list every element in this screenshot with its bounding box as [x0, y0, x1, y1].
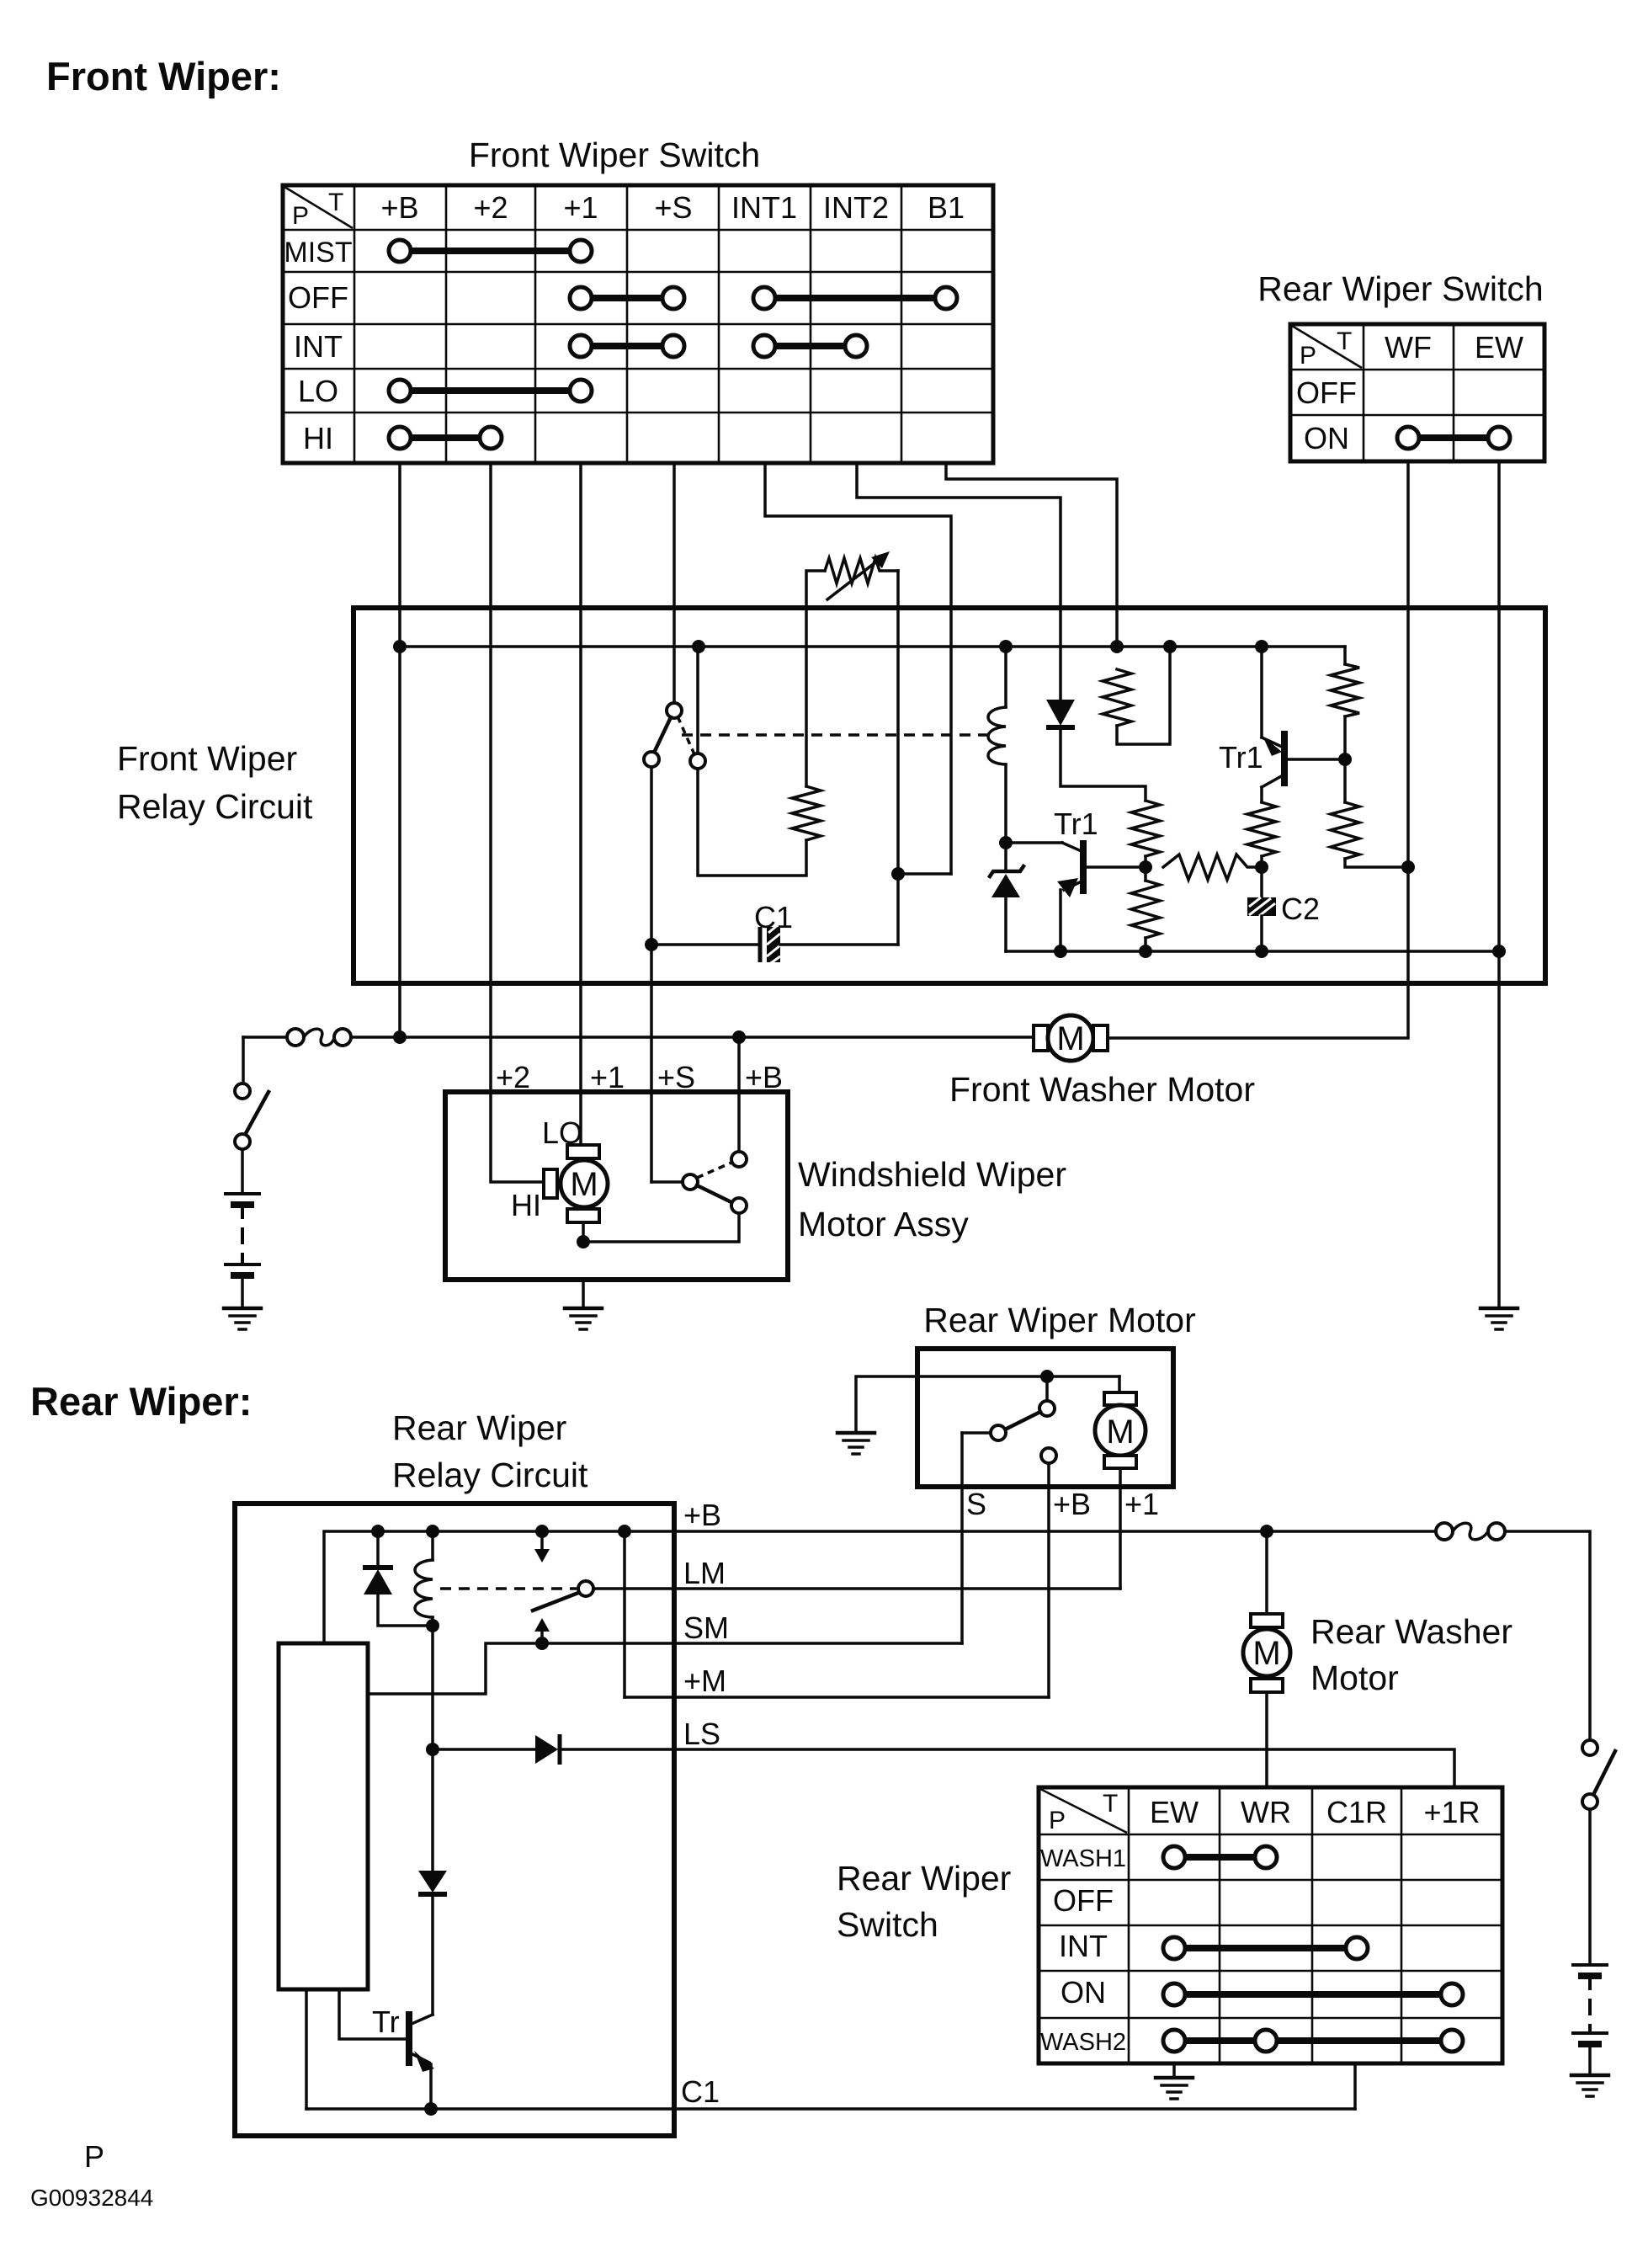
transistor Tr1 (lower): [1006, 840, 1146, 951]
svg-text:SM: SM: [683, 1610, 729, 1645]
node rear bus washer motor: [1260, 1525, 1273, 1538]
node bus right contact: [692, 640, 705, 653]
svg-text:Front Wiper:: Front Wiper:: [46, 54, 281, 98]
svg-text:INT: INT: [294, 329, 343, 364]
svg-text:Rear Washer: Rear Washer: [1310, 1612, 1512, 1651]
wire R5 to node: [1260, 856, 1263, 867]
resistor R2 (B1 branch): [1103, 649, 1170, 744]
resistor R5: [1247, 802, 1276, 856]
ON contact WF to EW: [1397, 427, 1510, 449]
dashed relay actuation line: [682, 733, 996, 737]
svg-text:T: T: [1337, 327, 1352, 355]
svg-text:Rear Wiper:: Rear Wiper:: [30, 1379, 252, 1424]
feed line to washer motor: [351, 1036, 1034, 1039]
park contact upper: [731, 1152, 747, 1167]
svg-text:C2: C2: [1281, 892, 1320, 926]
windshield wiper motor assy box: [445, 1092, 788, 1280]
node bus R2 return: [1163, 640, 1177, 653]
svg-text:HI: HI: [511, 1188, 541, 1222]
IC block: [279, 1643, 368, 1989]
ground rear motor: [837, 1433, 875, 1454]
diode D2 (rear series): [418, 1871, 447, 2015]
node rear bus +M: [618, 1525, 631, 1538]
front table position labels: [284, 237, 352, 455]
rear +B fuse F2: [1436, 1523, 1505, 1540]
rear +B bus: [324, 1531, 1444, 1643]
bottom rail wire inside relay box: [1006, 950, 1499, 953]
svg-text:M: M: [570, 1166, 598, 1203]
svg-text:OFF: OFF: [288, 280, 348, 315]
node bus coil: [999, 640, 1013, 653]
svg-text:C1: C1: [681, 2074, 720, 2109]
svg-text:INT: INT: [1059, 1929, 1108, 1963]
wire +2 column down to motor assy: [491, 463, 544, 1182]
resistor R4: [1131, 881, 1160, 938]
rear wiper motor box: [917, 1349, 1173, 1487]
rear relay pivot contact: [578, 1581, 593, 1596]
node VR1/INT1: [891, 867, 905, 881]
front wiper relay circuit box: [354, 608, 1545, 983]
SW1 dashed arm: [678, 716, 694, 754]
MIST contact +B to +1: [389, 240, 592, 262]
fuse F1: [287, 1029, 351, 1046]
node SM junction: [535, 1637, 549, 1650]
wire +S column down to relay switch pivot: [672, 463, 676, 704]
SW1 left contact: [644, 752, 659, 767]
node rear bus D1: [371, 1525, 385, 1538]
variable resistor VR1: [806, 551, 898, 786]
SM line: [548, 1642, 962, 1645]
diode D3 (LS): [433, 1734, 560, 1765]
wire EW from rear switch down to ground: [1497, 461, 1501, 1307]
rear wiper switch table (bottom) grid: [1039, 1787, 1502, 2063]
SW1 arm: [654, 717, 671, 753]
front table header pin labels: [292, 189, 965, 230]
ignition switch: [235, 1083, 268, 1149]
svg-text:B1: B1: [928, 190, 965, 225]
node base upper Tr1: [1338, 753, 1352, 766]
wire C1R to C1 rail: [1353, 2063, 1357, 2109]
node R3/R4 base: [1139, 860, 1152, 874]
wire +B column down: [398, 463, 401, 1037]
front washer motor: [1034, 1015, 1108, 1061]
svg-text:ON: ON: [1304, 421, 1349, 455]
wire R4 bottom: [1144, 938, 1147, 951]
wire node to INT1 leg: [898, 872, 951, 876]
svg-text:Front Wiper Switch: Front Wiper Switch: [469, 136, 760, 174]
node WF junction: [1401, 860, 1415, 874]
capacitor C1: [651, 924, 898, 965]
LO contact +B to +1: [389, 380, 592, 402]
svg-text:LO: LO: [542, 1115, 582, 1150]
wire switch to battery: [241, 1149, 244, 1192]
C1 rail: [306, 2107, 1355, 2111]
rear relay coil L2: [415, 1531, 433, 1617]
node Tr emitter on C1: [424, 2102, 438, 2116]
ON contact EW to +1R: [1163, 1983, 1463, 2005]
ground rear switch EW: [1156, 2063, 1193, 2099]
wire right contact to bus: [696, 649, 699, 753]
svg-text:EW: EW: [1475, 330, 1523, 365]
wire R3 to node: [1144, 856, 1147, 881]
node bus +B: [393, 640, 407, 653]
wire SM jog to IC: [368, 1643, 542, 1694]
transistor Tr (rear): [339, 1989, 434, 2109]
svg-text:P: P: [1300, 342, 1316, 370]
park switch arm dashed: [697, 1163, 731, 1178]
rear bottom table labels: [1040, 1790, 1481, 2056]
svg-text:P: P: [292, 202, 309, 230]
svg-text:+B: +B: [683, 1498, 721, 1532]
svg-text:P: P: [1049, 1807, 1066, 1834]
node bus Tr1 emitter: [1255, 640, 1268, 653]
wire R1 bottom to contact: [698, 769, 806, 876]
node C2 bottom: [1255, 945, 1268, 958]
svg-text:C1: C1: [754, 900, 793, 934]
park switch arm solid: [697, 1185, 733, 1203]
LM line: [593, 1587, 1120, 1590]
wire bus corner to right chain: [1343, 647, 1347, 664]
svg-text:Windshield Wiper: Windshield Wiper: [798, 1155, 1066, 1194]
OFF contact INT1 to B1: [753, 287, 957, 309]
svg-text:P: P: [84, 2139, 104, 2174]
svg-text:Relay Circuit: Relay Circuit: [117, 787, 313, 826]
resistor R8: [1331, 802, 1359, 859]
svg-text:+1: +1: [563, 190, 598, 225]
wire B1 jog to bus: [946, 463, 1117, 647]
wire ignition drop: [242, 1037, 245, 1083]
svg-text:C1R: C1R: [1326, 1795, 1387, 1829]
svg-text:INT2: INT2: [823, 190, 889, 225]
svg-text:Motor Assy: Motor Assy: [798, 1205, 969, 1243]
relay coil L1: [988, 647, 1006, 843]
node rear bus coil: [426, 1525, 439, 1538]
resistor R3: [1131, 801, 1160, 856]
wire R7 to base node: [1343, 716, 1347, 802]
wire ground feed into motor box: [856, 1376, 1119, 1431]
svg-text:WR: WR: [1241, 1795, 1291, 1829]
svg-text:MIST: MIST: [284, 237, 352, 269]
node motor common: [577, 1235, 590, 1248]
wire IC left pin to C1 rail: [305, 1989, 308, 2109]
svg-text:WASH2: WASH2: [1040, 2029, 1126, 2056]
svg-text:INT1: INT1: [731, 190, 797, 225]
OFF contact +1 to +S: [570, 287, 684, 309]
svg-text:+B: +B: [380, 190, 418, 225]
ground right battery: [1571, 2075, 1608, 2096]
node rear motor switch feed: [1040, 1370, 1054, 1383]
node rear bus contact: [535, 1525, 549, 1538]
wire INT1 jog: [765, 463, 951, 874]
capacitor C2: [1247, 867, 1276, 951]
svg-text:Tr1: Tr1: [1219, 740, 1263, 775]
svg-text:WASH1: WASH1: [1040, 1845, 1126, 1872]
wire fuse to right battery: [1505, 1531, 1590, 1740]
svg-text:M: M: [1106, 1414, 1134, 1451]
svg-text:Switch: Switch: [837, 1905, 938, 1944]
svg-text:Tr1: Tr1: [1054, 807, 1098, 841]
dashed rear relay actuation: [440, 1587, 577, 1590]
INT contact INT1 to INT2: [753, 335, 867, 357]
wire VR1 right leg: [896, 571, 900, 874]
svg-text:Rear Wiper: Rear Wiper: [392, 1408, 566, 1447]
resistor R7: [1331, 664, 1359, 716]
zener diode ZD1: [990, 843, 1023, 951]
relay switch SW1 pivot: [667, 703, 682, 718]
svg-text:+1: +1: [590, 1060, 625, 1094]
wire R8 to WF node: [1345, 859, 1408, 867]
ground wiper motor: [565, 1280, 602, 1329]
svg-text:T: T: [1103, 1790, 1118, 1818]
wiper motor M1: [544, 1145, 608, 1222]
INT contact EW to C1R: [1163, 1937, 1368, 1959]
svg-text:+1R: +1R: [1423, 1795, 1480, 1829]
node EW rail: [1492, 945, 1506, 958]
svg-text:EW: EW: [1150, 1795, 1199, 1829]
svg-text:+S: +S: [654, 190, 692, 225]
rear motor M2: [1095, 1376, 1146, 1468]
svg-text:LO: LO: [298, 374, 338, 408]
wire +1 column down to motor assy: [579, 463, 582, 1145]
wire +1 terminal down: [1119, 1468, 1122, 1589]
node R5/R6/C2: [1255, 860, 1268, 874]
node R4 bottom: [1139, 945, 1152, 958]
wire common to park contact: [583, 1213, 739, 1242]
svg-text:LS: LS: [683, 1717, 720, 1751]
svg-text:Rear Wiper: Rear Wiper: [837, 1859, 1011, 1898]
rear relay arm: [533, 1593, 578, 1610]
wire +M corner: [623, 1531, 626, 1697]
+M line: [625, 1696, 1049, 1699]
rear relay arm arrow up: [534, 1618, 550, 1643]
bus wire inside relay box: [400, 645, 1345, 648]
HI contact +B to +2: [389, 427, 502, 449]
feed line wire: [243, 1036, 288, 1039]
node +B feed: [393, 1030, 407, 1044]
rear relay fixed contact arrow: [534, 1531, 550, 1563]
svg-text:+B: +B: [745, 1060, 783, 1094]
svg-text:Front Washer Motor: Front Washer Motor: [949, 1070, 1255, 1109]
svg-text:M: M: [1056, 1020, 1084, 1057]
svg-text:+2: +2: [473, 190, 508, 225]
ground for EW wire: [1481, 1308, 1518, 1329]
node bus B1: [1110, 640, 1124, 653]
battery B2 (right): [1571, 1965, 1608, 2074]
node coil bottom: [999, 836, 1013, 849]
svg-text:M: M: [1252, 1635, 1280, 1672]
svg-text:HI: HI: [303, 421, 333, 455]
WASH1 contact EW to WR: [1163, 1846, 1277, 1868]
svg-text:+2: +2: [496, 1060, 530, 1094]
wire +B branch down to park contact: [737, 1037, 741, 1152]
rear wiper switch table (top) grid: [1290, 324, 1544, 461]
wire INT2 jog to diode: [857, 463, 1061, 700]
rear motor park switch: [962, 1376, 1056, 1463]
svg-text:G00932844: G00932844: [30, 2185, 153, 2211]
svg-text:LM: LM: [683, 1556, 726, 1590]
node LS junction: [426, 1743, 439, 1756]
rear washer motor M3: [1243, 1531, 1290, 1787]
svg-text:Rear Wiper Motor: Rear Wiper Motor: [923, 1301, 1196, 1339]
svg-text:+M: +M: [683, 1664, 726, 1698]
node emitter bottom: [1054, 945, 1067, 958]
battery B1 (left): [224, 1194, 261, 1307]
svg-text:Tr: Tr: [372, 2004, 400, 2039]
wire C1 right up to node: [896, 874, 900, 945]
ground left battery: [224, 1308, 261, 1329]
diode D4 (rear flyback): [363, 1531, 433, 1626]
resistor R1: [792, 786, 821, 840]
svg-text:Motor: Motor: [1310, 1658, 1399, 1697]
wire coil junction down: [431, 1617, 434, 1749]
wire +B terminal down: [1047, 1463, 1050, 1697]
svg-text:OFF: OFF: [1053, 1883, 1114, 1918]
svg-text:Rear Wiper Switch: Rear Wiper Switch: [1257, 269, 1543, 308]
front wiper switch table grid: [283, 185, 993, 463]
rear ignition switch: [1582, 1740, 1615, 1809]
diode D1 (INT2 branch): [1046, 700, 1146, 801]
wire switch to battery right: [1588, 1809, 1592, 1963]
svg-text:OFF: OFF: [1296, 375, 1357, 410]
WASH2 contact EW WR +1R: [1163, 2030, 1463, 2052]
rear top table labels: [1296, 327, 1523, 455]
svg-text:Relay Circuit: Relay Circuit: [392, 1456, 588, 1494]
LS line: [561, 1749, 1454, 1787]
park switch pivot: [683, 1174, 698, 1190]
svg-text:T: T: [328, 189, 343, 216]
svg-text:+S: +S: [657, 1060, 695, 1094]
SW1 right contact: [690, 753, 705, 769]
svg-text:WF: WF: [1385, 330, 1432, 365]
transistor Tr1 (upper): [1262, 649, 1345, 802]
wire WF from rear switch down: [1108, 461, 1408, 1038]
wire below LS node: [431, 1749, 434, 1871]
svg-text:ON: ON: [1061, 1975, 1106, 2010]
INT contact +1 to +S: [570, 335, 684, 357]
svg-text:S: S: [966, 1487, 986, 1521]
wire motor common down: [582, 1222, 585, 1242]
svg-text:+B: +B: [1053, 1487, 1091, 1521]
svg-text:+1: +1: [1124, 1487, 1159, 1521]
node C1 left: [645, 938, 658, 951]
svg-text:Front Wiper: Front Wiper: [117, 739, 297, 778]
park contact lower: [731, 1198, 747, 1213]
resistor R6 (horizontal): [1163, 854, 1262, 880]
node +B motor branch: [732, 1030, 746, 1044]
wire left contact down to motor assy switch: [650, 767, 653, 1182]
node coil/diode junction: [426, 1619, 439, 1632]
wire +S to park pivot: [651, 1180, 683, 1184]
rear wiper relay circuit box: [235, 1504, 674, 2136]
wire S terminal down: [960, 1433, 964, 1643]
